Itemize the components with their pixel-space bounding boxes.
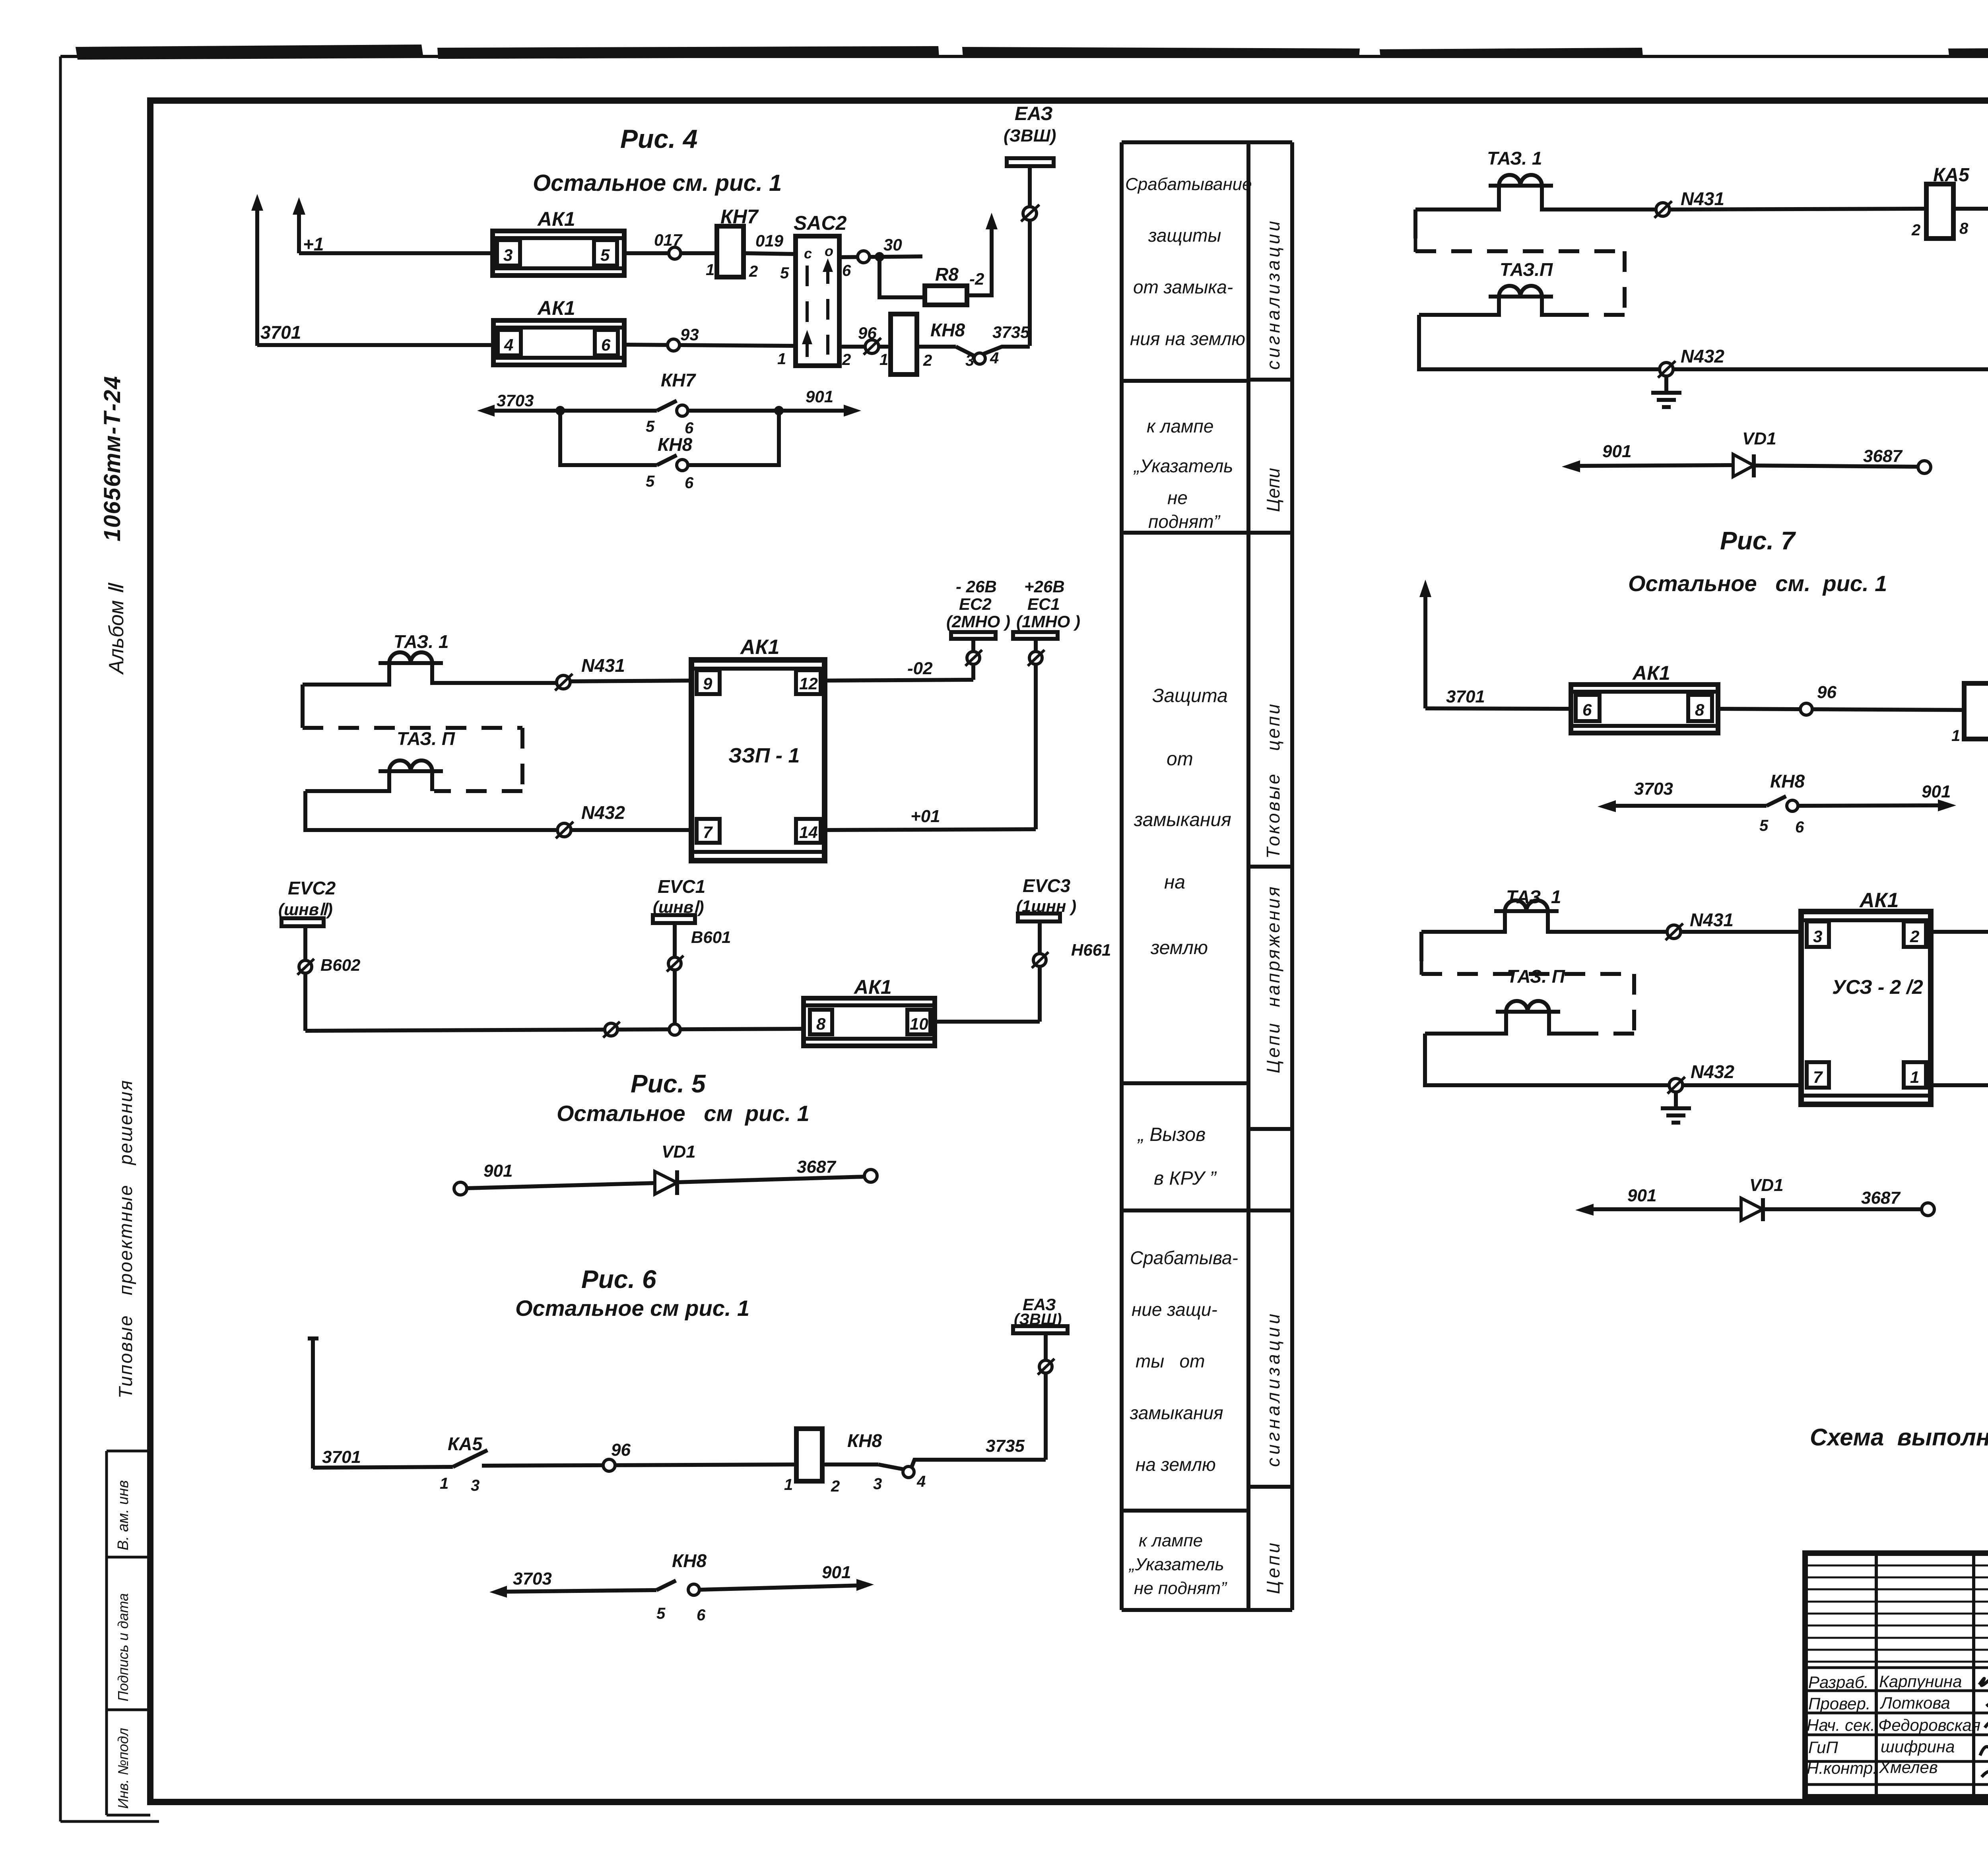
outer border top — [60, 55, 1988, 58]
svg-text:VD1: VD1 — [1749, 1175, 1784, 1195]
svg-text:(1МНО ): (1МНО ) — [1016, 612, 1080, 631]
svg-text:14: 14 — [799, 823, 818, 842]
node N431 — [557, 675, 570, 689]
svg-text:7: 7 — [1813, 1068, 1823, 1086]
svg-text:+01: +01 — [911, 807, 940, 826]
svg-text:30: 30 — [883, 235, 902, 254]
svg-text:1: 1 — [784, 1476, 793, 1494]
svg-text:8: 8 — [816, 1014, 826, 1033]
pushbutton KN7 (1-2) — [717, 226, 744, 277]
svg-text:ТАЗ. 1: ТАЗ. 1 — [394, 631, 449, 652]
svg-text:5: 5 — [600, 246, 610, 264]
relay unit USZ-2/2 (AK1) — [1801, 889, 1931, 1104]
svg-text:6: 6 — [1582, 700, 1592, 719]
svg-text:ЕС2: ЕС2 — [959, 595, 992, 613]
svg-text:12: 12 — [799, 674, 818, 693]
svg-text:АК1: АК1 — [853, 976, 892, 998]
svg-text:Рис. 6: Рис. 6 — [581, 1265, 656, 1294]
CT TAZ.P — [1419, 259, 1574, 315]
svg-text:на: на — [1164, 872, 1185, 893]
node 96 — [865, 340, 879, 353]
svg-text:КН8: КН8 — [672, 1550, 707, 1571]
svg-text:3701: 3701 — [260, 322, 301, 343]
mech linkage dashes — [301, 685, 305, 728]
cell: tripping of protections — [1130, 1247, 1238, 1475]
wire +01 — [1931, 1083, 1988, 1087]
svg-text:землю: землю — [1150, 937, 1208, 958]
svg-text:КА5: КА5 — [448, 1433, 483, 1454]
svg-text:АК1: АК1 — [740, 636, 779, 659]
svg-text:Срабатывание: Срабатывание — [1125, 175, 1252, 194]
svg-text:Типовые проектные решения: Типовые проектные решения — [115, 1079, 136, 1398]
diode link 901-VD1-3687 — [1575, 1175, 1934, 1221]
wire to AK1 — [1425, 708, 1571, 709]
svg-text:N431: N431 — [1690, 910, 1734, 930]
svg-text:защиты: защиты — [1148, 225, 1221, 246]
svg-text:901: 901 — [1602, 442, 1631, 461]
svg-text:3: 3 — [503, 246, 513, 264]
svg-text:замыкания: замыкания — [1130, 1402, 1223, 1423]
svg-text:901: 901 — [822, 1563, 851, 1582]
wire R8 up arrow — [967, 223, 992, 295]
svg-text:96: 96 — [858, 324, 877, 342]
svg-text:Токовые цепи: Токовые цепи — [1263, 702, 1283, 859]
svg-text:6: 6 — [601, 336, 611, 354]
signature rows text — [1807, 1672, 1980, 1777]
svg-text:10656тм-Т-24: 10656тм-Т-24 — [99, 375, 125, 541]
svg-text:2: 2 — [842, 351, 851, 369]
svg-text:8: 8 — [1959, 220, 1969, 237]
svg-text:АК1: АК1 — [537, 208, 575, 230]
svg-text:3: 3 — [873, 1475, 882, 1493]
signature scribbles — [1979, 1672, 1988, 1789]
wire node 96 — [1718, 709, 1964, 710]
svg-text:(ЗВШ): (ЗВШ) — [1004, 126, 1056, 145]
node N431 — [1667, 925, 1681, 939]
svg-text:ЕС1: ЕС1 — [1027, 595, 1060, 613]
svg-text:7: 7 — [703, 823, 713, 842]
wire to KA5 — [313, 1467, 453, 1468]
svg-text:N431: N431 — [581, 655, 625, 676]
pushbutton KN8 (1-2) — [1964, 683, 1988, 739]
torn paper edge strip — [76, 45, 1988, 60]
svg-text:Нач. сек.: Нач. сек. — [1807, 1716, 1875, 1734]
bus EVC3 (1ShNN) — [1016, 875, 1111, 1022]
svg-text:В. ам. инв: В. ам. инв — [115, 1480, 132, 1550]
svg-text:Схема выполнена на листах: Схема выполнена на листах 20, 21, 22, 23… — [1810, 1424, 1988, 1451]
svg-text:9: 9 — [703, 674, 712, 693]
svg-text:КН8: КН8 — [658, 434, 692, 455]
svg-text:В602: В602 — [320, 956, 360, 974]
outer border left — [59, 56, 62, 1821]
wire row1 — [299, 251, 493, 255]
svg-text:3701: 3701 — [322, 1447, 361, 1467]
svg-text:(шнвⅡ): (шнвⅡ) — [278, 900, 333, 919]
svg-text:019: 019 — [755, 231, 784, 250]
svg-text:УСЗ - 2 /2: УСЗ - 2 /2 — [1832, 976, 1923, 998]
svg-text:Провер.: Провер. — [1808, 1694, 1871, 1713]
relay contact KA5 — [453, 1450, 487, 1467]
node 017 — [669, 247, 681, 259]
branch down to resistor R8 — [879, 257, 925, 297]
table grid — [1122, 142, 1292, 1610]
svg-text:5: 5 — [1759, 817, 1769, 834]
svg-text:3: 3 — [965, 352, 974, 369]
relay block AK1 (6-8) — [1571, 662, 1718, 733]
svg-text:5: 5 — [780, 264, 789, 282]
svg-text:5: 5 — [646, 473, 655, 490]
svg-text:КН8: КН8 — [847, 1430, 882, 1451]
signature table rows — [1805, 1565, 1988, 1662]
svg-text:ТАЗ. 1: ТАЗ. 1 — [1487, 148, 1542, 169]
node +1 supply line — [297, 207, 301, 253]
svg-text:КН7: КН7 — [661, 370, 696, 390]
svg-text:шифрина: шифрина — [1881, 1737, 1955, 1756]
node N432 — [1660, 363, 1673, 376]
relay unit ZZP-1 (AK1) — [691, 636, 825, 861]
svg-text:017: 017 — [654, 231, 683, 249]
svg-text:901: 901 — [483, 1161, 513, 1181]
svg-text:Альбом Ⅱ: Альбом Ⅱ — [105, 582, 128, 675]
svg-text:Разраб.: Разраб. — [1808, 1673, 1869, 1691]
svg-text:Защита: Защита — [1152, 685, 1228, 706]
relay coil KA5 — [1926, 184, 1953, 239]
svg-text:ТАЗ.П: ТАЗ.П — [1500, 259, 1553, 280]
svg-text:3703: 3703 — [1634, 779, 1673, 799]
svg-text:3687: 3687 — [1863, 446, 1903, 466]
node N431 — [1656, 203, 1670, 216]
svg-text:ТАЗ. П: ТАЗ. П — [397, 728, 455, 749]
node 3701 supply line — [255, 204, 259, 346]
node N432 — [1669, 1078, 1683, 1092]
svg-text:1: 1 — [1910, 1068, 1919, 1086]
svg-text:Н.контр.: Н.контр. — [1807, 1759, 1877, 1777]
bypass branch KN8 5-6 — [560, 411, 779, 492]
wire — [624, 251, 717, 255]
svg-text:VD1: VD1 — [1742, 429, 1776, 448]
relay block AK1 (8-10) — [804, 976, 935, 1046]
svg-text:2: 2 — [923, 352, 932, 369]
svg-text:Подпись и дата: Подпись и дата — [115, 1593, 131, 1701]
svg-text:В601: В601 — [691, 928, 731, 947]
svg-text:1: 1 — [440, 1475, 448, 1492]
svg-text:ния на землю: ния на землю — [1130, 328, 1245, 349]
svg-text:-2: -2 — [969, 270, 984, 288]
diode link 901-VD1-3687 — [1562, 429, 1931, 477]
svg-text:Цепи напряжения: Цепи напряжения — [1263, 884, 1283, 1073]
svg-text:-02: -02 — [907, 659, 933, 678]
svg-text:96: 96 — [611, 1440, 631, 1460]
svg-text:+26В: +26В — [1024, 577, 1065, 596]
CT TAZ.P — [305, 728, 455, 791]
ground — [1651, 376, 1681, 407]
svg-text:с: с — [804, 245, 812, 262]
svg-text:901: 901 — [1922, 782, 1951, 801]
wire to AK1 pin 8 — [305, 1029, 804, 1031]
svg-text:3687: 3687 — [797, 1157, 837, 1177]
svg-text:от: от — [1167, 749, 1193, 770]
svg-text:1: 1 — [879, 351, 888, 369]
svg-text:КН8: КН8 — [1770, 771, 1805, 791]
cell: to lamp 2 — [1128, 1531, 1227, 1598]
contact blade 3-4 — [822, 1462, 878, 1466]
svg-text:Срабатыва-: Срабатыва- — [1130, 1247, 1238, 1268]
svg-text:замыкания: замыкания — [1134, 809, 1231, 830]
svg-text:Н661: Н661 — [1071, 941, 1111, 959]
wire -02 — [825, 680, 973, 681]
svg-text:N432: N432 — [581, 802, 625, 823]
svg-text:2: 2 — [1910, 927, 1919, 946]
svg-text:на землю: на землю — [1136, 1454, 1216, 1475]
svg-text:Рис. 4: Рис. 4 — [620, 124, 697, 153]
cell: call to KRU — [1137, 1124, 1217, 1189]
svg-text:о: о — [825, 243, 833, 259]
svg-text:Федоровская: Федоровская — [1878, 1716, 1980, 1734]
pushbutton KN8 (1-2) — [891, 314, 917, 374]
svg-text:ты от: ты от — [1136, 1351, 1205, 1371]
svg-text:к лампе: к лампе — [1139, 1531, 1203, 1550]
svg-text:сигнализации: сигнализации — [1263, 218, 1283, 370]
cell: tripping of earth-fault protection — [1125, 175, 1252, 349]
svg-text:3: 3 — [471, 1477, 480, 1494]
svg-text:N432: N432 — [1691, 1061, 1734, 1082]
svg-text:Остальное см. рис. 1: Остальное см. рис. 1 — [1628, 571, 1887, 596]
wire loop right — [1953, 209, 1988, 369]
svg-text:не поднят”: не поднят” — [1134, 1579, 1227, 1598]
svg-text:поднят”: поднят” — [1148, 511, 1221, 532]
bypass wire 3703-KN8-901 — [489, 1550, 874, 1624]
svg-text:ЗЗП - 1: ЗЗП - 1 — [728, 744, 800, 767]
svg-text:901: 901 — [1627, 1186, 1656, 1205]
svg-text:VD1: VD1 — [662, 1142, 696, 1162]
svg-text:Карпунина: Карпунина — [1879, 1672, 1962, 1691]
wire row2 — [257, 343, 493, 347]
ground — [1661, 1092, 1691, 1123]
svg-text:2: 2 — [831, 1478, 840, 1495]
bypass wire 3703-KN7-901 — [477, 370, 861, 437]
wire node 96 — [482, 1464, 796, 1466]
svg-text:сигнализации: сигнализации — [1263, 1311, 1283, 1467]
svg-text:6: 6 — [685, 474, 694, 492]
svg-text:к лампе: к лампе — [1147, 416, 1213, 436]
svg-text:SAC2: SAC2 — [794, 212, 847, 234]
wire -02 — [1931, 930, 1988, 934]
annunciator EA3 (ZVSh) — [1013, 1295, 1068, 1460]
title block frame — [1805, 1553, 1988, 1797]
svg-text:EVC3: EVC3 — [1023, 875, 1071, 896]
svg-text:Цепи: Цепи — [1263, 1540, 1283, 1594]
resistor R8 — [925, 286, 967, 305]
svg-text:в КРУ ”: в КРУ ” — [1154, 1168, 1217, 1189]
svg-text:4: 4 — [504, 336, 513, 354]
wire from SAC2 pin 2 — [839, 345, 891, 349]
svg-text:ТАЗ. П: ТАЗ. П — [1507, 966, 1565, 987]
CT TAZ.P — [1425, 966, 1582, 1034]
svg-text:АК1: АК1 — [537, 297, 575, 319]
relay block AK1 (3-5) — [493, 208, 624, 275]
svg-text:Остальное см. рис. 1: Остальное см. рис. 1 — [533, 170, 782, 196]
svg-text:КА5: КА5 — [1933, 165, 1970, 186]
bus EVC2 (shnv II) — [278, 878, 360, 1031]
pushbutton KN8 (1-2) — [796, 1429, 822, 1481]
svg-text:93: 93 — [680, 325, 699, 344]
wire 019 — [744, 253, 796, 254]
cell: earth fault protection — [1134, 685, 1231, 958]
CT TAZ.1 — [1421, 886, 1801, 932]
svg-text:6: 6 — [842, 262, 851, 279]
svg-text:2: 2 — [749, 263, 758, 280]
svg-text:1: 1 — [1951, 727, 1960, 745]
svg-text:10: 10 — [910, 1014, 928, 1033]
svg-text:3703: 3703 — [497, 391, 534, 410]
svg-text:ГиП: ГиП — [1808, 1738, 1838, 1757]
svg-text:3701: 3701 — [1446, 687, 1485, 706]
svg-text:1: 1 — [706, 261, 714, 279]
svg-text:3687: 3687 — [1861, 1188, 1901, 1208]
svg-text:„ Вызов: „ Вызов — [1137, 1124, 1206, 1145]
svg-text:Рис. 7: Рис. 7 — [1720, 526, 1796, 555]
svg-text:Рис. 5: Рис. 5 — [631, 1069, 706, 1098]
svg-text:6: 6 — [1795, 819, 1804, 836]
switch SAC2 — [777, 212, 851, 369]
svg-text:1: 1 — [777, 350, 786, 368]
bypass wire 3703-KN8-901 — [1598, 771, 1956, 836]
wire from SAC2 pin 6 — [839, 256, 922, 257]
svg-text:Хмелев: Хмелев — [1879, 1758, 1938, 1777]
diode link 901-VD1-3687 — [454, 1142, 877, 1195]
outer border bottom-left stub — [60, 1820, 159, 1823]
CT TAZ.1 — [303, 631, 557, 685]
svg-text:EVC1: EVC1 — [658, 876, 705, 897]
svg-text:3703: 3703 — [513, 1569, 552, 1589]
svg-text:АК1: АК1 — [1859, 889, 1899, 912]
svg-text:5: 5 — [656, 1605, 666, 1622]
cell: to lamp indicator not raised — [1133, 416, 1233, 532]
contact blade 3-4 — [917, 345, 956, 349]
CT TAZ.1 — [1415, 148, 1656, 209]
svg-text:КН7: КН7 — [720, 206, 759, 228]
svg-text:96: 96 — [1817, 683, 1837, 702]
supply EC2 (2MNO) — [946, 577, 1010, 680]
supply line 3701 — [311, 1338, 315, 1468]
svg-text:„Указатель: „Указатель — [1128, 1555, 1224, 1574]
svg-text:Инв. №подл: Инв. №подл — [115, 1728, 131, 1809]
mech linkage dashes — [1419, 932, 1423, 961]
svg-text:3: 3 — [1813, 927, 1822, 946]
svg-text:(2МНО ): (2МНО ) — [946, 612, 1010, 631]
bus EVC1 (shnv I) — [653, 876, 731, 1030]
relay block AK1 (4-6) — [493, 297, 624, 365]
svg-text:901: 901 — [806, 387, 833, 406]
supply EC1 (1MNO) — [1013, 577, 1080, 829]
svg-text:ЕАЗ: ЕАЗ — [1015, 103, 1053, 124]
mech linkage dashes — [1413, 209, 1417, 239]
node N432 — [557, 823, 571, 837]
wire +01 — [825, 829, 1036, 830]
svg-text:6: 6 — [697, 1606, 706, 1624]
svg-text:„Указатель: „Указатель — [1133, 456, 1233, 476]
svg-text:N432: N432 — [1681, 346, 1724, 367]
svg-text:не: не — [1167, 487, 1188, 508]
svg-text:Остальное см рис. 1: Остальное см рис. 1 — [515, 1296, 749, 1321]
svg-text:АК1: АК1 — [1632, 662, 1670, 684]
svg-text:3735: 3735 — [992, 323, 1030, 341]
svg-text:КН8: КН8 — [930, 320, 965, 340]
svg-text:- 26В: - 26В — [956, 577, 997, 596]
svg-text:EVC2: EVC2 — [288, 878, 336, 898]
svg-text:3735: 3735 — [986, 1436, 1025, 1456]
svg-text:2: 2 — [1911, 221, 1920, 239]
svg-text:от замыка-: от замыка- — [1133, 277, 1233, 297]
svg-text:N431: N431 — [1681, 188, 1724, 209]
svg-text:4: 4 — [916, 1473, 926, 1490]
svg-text:8: 8 — [1695, 700, 1705, 719]
svg-text:5: 5 — [646, 418, 655, 435]
svg-text:ние защи-: ние защи- — [1132, 1299, 1217, 1320]
annunciator EA3 (ZVSh) — [1004, 103, 1056, 346]
left bottom cells — [107, 1451, 150, 1815]
signature table verticals — [1876, 1553, 1988, 1797]
supply line 3701 — [1423, 589, 1427, 708]
svg-text:Остальное см рис. 1: Остальное см рис. 1 — [557, 1101, 810, 1126]
svg-text:ТАЗ. 1: ТАЗ. 1 — [1506, 886, 1561, 907]
svg-text:Лоткова: Лоткова — [1879, 1693, 1950, 1712]
wire with node 93 — [624, 345, 796, 346]
svg-text:Цепи: Цепи — [1263, 468, 1283, 512]
svg-text:R8: R8 — [935, 264, 959, 285]
